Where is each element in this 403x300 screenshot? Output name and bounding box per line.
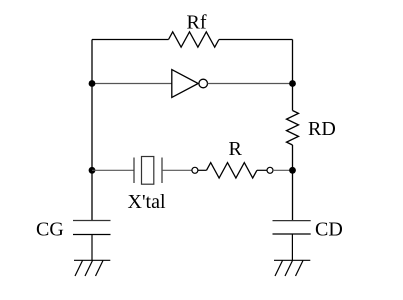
capacitor CD bottom plate xyxy=(273,233,311,235)
wire to crystal xyxy=(92,169,134,171)
wire terminal to R xyxy=(198,169,207,171)
wire top left segment xyxy=(92,39,169,41)
capacitor CG bottom plate xyxy=(73,234,111,236)
terminal circle right xyxy=(267,167,273,173)
ground right bar xyxy=(274,259,310,261)
wire terminal to rail xyxy=(273,169,293,171)
svg-text:CG: CG xyxy=(36,219,64,241)
crystal X'tal body xyxy=(142,157,154,185)
wire crystal to terminal xyxy=(162,169,192,171)
wire CD to ground xyxy=(291,234,293,260)
node output junction xyxy=(289,80,296,87)
node crystal-left junction xyxy=(89,167,96,174)
wire right vertical rail lower xyxy=(292,145,294,221)
resistor Rf xyxy=(169,32,219,47)
capacitor CD top plate xyxy=(273,220,311,222)
svg-text:CD: CD xyxy=(315,219,343,241)
wire CG to ground xyxy=(91,235,93,261)
wire right vertical rail upper xyxy=(292,40,294,111)
crystal X'tal right plate xyxy=(161,158,163,184)
svg-text:RD: RD xyxy=(308,118,336,140)
svg-text:X'tal: X'tal xyxy=(128,191,166,213)
op-amp inverter U1 xyxy=(172,70,198,98)
ground left hatch 3 xyxy=(96,261,104,277)
crystal X'tal left plate xyxy=(133,158,135,184)
ground right hatch 2 xyxy=(285,261,293,277)
ground right hatch 3 xyxy=(296,261,304,277)
capacitor CG top plate xyxy=(73,220,111,222)
wire inverter input xyxy=(92,83,172,85)
terminal circle left xyxy=(192,167,198,173)
node input junction xyxy=(89,80,96,87)
wire R to terminal xyxy=(257,169,267,171)
ground left hatch 2 xyxy=(85,261,93,277)
svg-text:R: R xyxy=(229,138,243,160)
wire inverter output xyxy=(208,83,293,85)
resistor RD xyxy=(287,111,299,146)
resistor R xyxy=(207,163,257,178)
inverter output bubble xyxy=(199,79,208,88)
wire top-left vertical rail xyxy=(91,40,93,221)
node crystal-right junction xyxy=(289,167,296,174)
svg-text:Rf: Rf xyxy=(187,12,207,34)
ground left hatch 1 xyxy=(75,261,83,277)
ground right hatch 1 xyxy=(275,261,283,277)
wire top right segment xyxy=(219,39,293,41)
ground left bar xyxy=(74,259,110,261)
